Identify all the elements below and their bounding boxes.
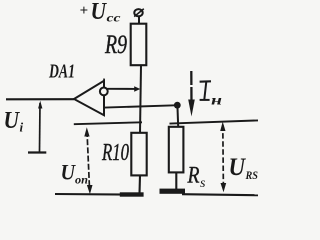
current arrow Iн [188,71,195,117]
label Ui [4,108,24,135]
voltage arrow URS (double headed) [220,122,226,193]
svg-text:оп: оп [75,173,88,187]
junction node dot [174,102,181,109]
svg-text:+: + [80,3,89,19]
ground bar right (under Rs) [160,189,186,194]
svg-text:U: U [229,154,247,181]
ground bar left (under R10) [120,192,144,196]
resistor R9 [131,24,147,65]
op-amp DA1 [74,79,108,116]
label Rs [187,163,206,192]
wire R10 bottom to ground [138,175,141,193]
svg-text:U: U [61,160,77,185]
svg-text:R: R [187,163,200,188]
wire node down to Rs [176,105,179,127]
svg-text:RS: RS [245,168,258,182]
wire Rs bottom to ground [175,172,177,191]
bottom rail left [55,193,141,196]
label Uоп [61,160,89,187]
resistor R10 [131,133,146,176]
wire B: op-amp lower input to node [105,105,176,107]
svg-text:R9: R9 [104,30,127,59]
voltage marker Ui (arrow up to wire, bar at bottom) [28,101,46,153]
svg-text:U: U [91,0,108,25]
wire C: lower node rail (left of column) [74,122,142,124]
wire op-amp output to left edge [6,98,74,100]
resistor Rs [169,127,184,173]
voltage arrow Uоп (double headed) [84,127,92,194]
svg-text:R10: R10 [101,140,129,166]
label Iн [200,81,211,100]
label URS [229,154,259,182]
svg-text:н: н [211,94,222,109]
wire R9 bottom to R10 top [140,65,141,133]
svg-text:cc: cc [107,11,122,25]
bottom rail right [182,194,258,195]
svg-text:U: U [4,108,21,134]
wire A: op-amp bubble to node, with right arrowhead [108,86,141,92]
label +Ucc [80,0,122,25]
svg-text:i: i [20,120,24,135]
svg-text:DA1: DA1 [48,61,75,83]
terminal +Ucc [134,9,144,24]
svg-text:s: s [200,176,206,191]
wire D: lower rail from Rs column to right edge [170,120,259,123]
